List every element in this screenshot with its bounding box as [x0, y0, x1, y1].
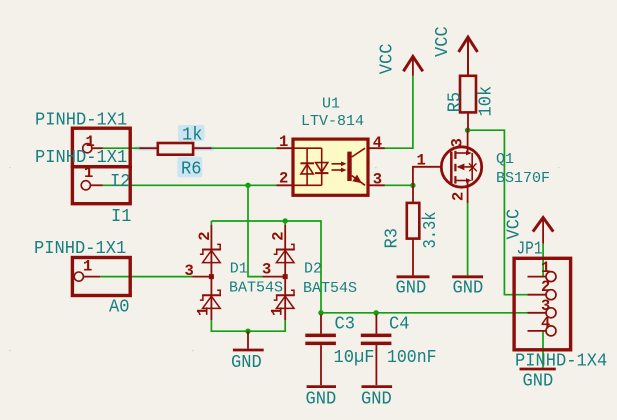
ground GND below JP1 [520, 368, 556, 371]
Q1 source tap [455, 180, 466, 182]
D1 junction square [209, 274, 214, 279]
svg-text:3: 3 [185, 262, 194, 280]
node D2 top junction [283, 218, 288, 223]
resistor R6 body [158, 143, 193, 155]
svg-text:1: 1 [195, 307, 213, 316]
svg-text:Q1: Q1 [496, 151, 514, 168]
svg-text:2: 2 [541, 278, 550, 296]
ground GND below Q1 source [452, 275, 483, 278]
pin 1 circle of middle connector [81, 181, 90, 190]
node R5/Q1 drain junction [465, 128, 470, 133]
svg-text:BAT54S: BAT54S [303, 280, 357, 297]
label highlight R6 [177, 157, 202, 178]
D2 junction square [283, 274, 288, 279]
wire D2 top stub [284, 221, 286, 225]
svg-text:2: 2 [450, 192, 468, 201]
svg-text:2: 2 [279, 169, 288, 187]
Q1 body arrow [457, 164, 465, 171]
D2 bottom schottky diode [276, 294, 295, 296]
ground GND below R3 [397, 275, 430, 278]
svg-text:1k: 1k [182, 125, 203, 146]
svg-text:R6: R6 [181, 159, 202, 180]
svg-text:A0: A0 [109, 297, 130, 318]
resistor R6 leads [139, 147, 158, 149]
svg-text:1: 1 [417, 151, 426, 169]
svg-text:4: 4 [373, 134, 382, 152]
pin 1 stub of middle connector [90, 184, 102, 186]
svg-text:3: 3 [541, 297, 550, 315]
R3 leads [412, 185, 414, 203]
svg-text:3: 3 [373, 171, 382, 189]
power VCC arrow above U1 [403, 57, 422, 72]
svg-text:3: 3 [262, 261, 271, 279]
svg-text:10µF: 10µF [334, 347, 375, 368]
svg-text:2: 2 [196, 231, 214, 240]
U1 LED diode right (down) [315, 172, 328, 174]
resistor R5 body [460, 76, 476, 113]
svg-text:LTV-814: LTV-814 [301, 113, 364, 130]
svg-text:JP1: JP1 [517, 239, 543, 260]
JP1 pin 2 [528, 294, 547, 296]
wire A0 to D1 pin3 [100, 276, 192, 278]
svg-text:GND: GND [231, 352, 262, 373]
svg-text:PINHD-1X4: PINHD-1X4 [515, 351, 607, 372]
svg-text:VCC: VCC [377, 43, 398, 74]
svg-text:I1: I1 [111, 206, 132, 227]
JP1 pin 4 [528, 330, 547, 332]
C4 leads [375, 315, 377, 334]
wire U1 pin4 to VCC [385, 76, 413, 148]
svg-text:4: 4 [541, 314, 550, 332]
svg-text:1: 1 [84, 164, 93, 182]
svg-text:U1: U1 [322, 96, 340, 113]
pin 1 circle of A0 connector [74, 272, 83, 281]
connector box I1 (middle PINHD-1X1) [72, 167, 130, 204]
label highlight 1k [178, 125, 205, 141]
node R3/U1.3 junction [410, 183, 415, 188]
wire Q1 source to GND [467, 203, 469, 275]
node C4 junction [373, 310, 378, 315]
svg-text:R5: R5 [444, 92, 465, 113]
ground GND below D bridge [247, 331, 249, 348]
svg-text:3.3k: 3.3k [420, 212, 441, 249]
U1 LED diode left (up) [300, 162, 314, 164]
svg-text:GND: GND [306, 389, 337, 410]
net highlight band on R6 net [135, 146, 215, 151]
C3 leads [320, 315, 322, 334]
svg-text:VCC: VCC [432, 26, 453, 57]
connector box I2 (top PINHD-1X1) [72, 128, 130, 167]
D1 pin3 stub [193, 276, 212, 278]
svg-text:GND: GND [523, 370, 554, 391]
node C3 junction [318, 310, 323, 315]
JP1 pin 1 [528, 276, 547, 278]
svg-text:1: 1 [86, 133, 95, 151]
wire U1 pin3 to R3 node [385, 184, 413, 186]
power VCC arrow above JP1 [533, 218, 553, 232]
Q1 source pin [467, 180, 469, 203]
svg-text:PINHD-1X1: PINHD-1X1 [35, 147, 127, 168]
svg-text:GND: GND [396, 278, 427, 299]
svg-text:BS170F: BS170F [496, 170, 550, 187]
U1 phototransistor [347, 152, 351, 181]
capacitor C4 plates [361, 334, 392, 338]
Q1 body diode mark [469, 163, 476, 171]
svg-text:C3: C3 [335, 314, 356, 335]
transistor Q1 circle [441, 147, 481, 187]
connector box A0 (bottom PINHD-1X1) [72, 258, 130, 296]
wire R6 to U1 pin1 [212, 147, 277, 149]
Q1 gate wire (red) [413, 167, 442, 186]
svg-text:BAT54S: BAT54S [229, 279, 283, 296]
wire node I2 down to D2 pin3 [248, 185, 263, 276]
svg-text:100nF: 100nF [387, 347, 437, 368]
svg-text:D2: D2 [304, 260, 322, 277]
U1 emission arrows [332, 163, 343, 165]
D1 top schottky diode [202, 249, 221, 251]
svg-text:D1: D1 [230, 261, 248, 278]
svg-text:1: 1 [279, 133, 288, 151]
resistor R3 body [407, 203, 420, 239]
Q1 drain pin [467, 130, 469, 153]
D2 top schottky diode [276, 249, 295, 251]
Q1 channel dashes [454, 151, 456, 159]
wire JP1 pin4 to GND [542, 331, 544, 368]
connector box JP1 (PINHD-1X4) [514, 258, 571, 350]
wire D1 top stub [210, 221, 212, 225]
wire I1 pin to R6 [103, 147, 139, 149]
svg-text:GND: GND [453, 278, 484, 299]
R5 leads [467, 40, 469, 76]
JP1 pin 3 [528, 312, 547, 314]
capacitor C3 plates [305, 334, 336, 338]
diode D1 vertical line [210, 225, 212, 320]
wire rail C3 C4 to JP1 pin3 [321, 312, 528, 314]
svg-text:I2: I2 [110, 171, 131, 192]
D2 pin3 stub [263, 276, 286, 278]
svg-text:VCC: VCC [504, 209, 525, 240]
power VCC arrow above R5 [459, 37, 478, 52]
svg-text:10k: 10k [475, 86, 496, 117]
svg-text:GND: GND [361, 389, 392, 410]
svg-text:1: 1 [268, 307, 286, 316]
svg-text:2: 2 [270, 231, 288, 240]
diode D2 vertical line [284, 225, 286, 320]
U1 LED bracket [293, 147, 322, 149]
ground GND below C4 [362, 385, 393, 388]
D1 bottom schottky diode [202, 294, 221, 296]
svg-text:C4: C4 [389, 314, 410, 335]
optocoupler U1 body [293, 139, 368, 195]
pin 1 stub of top connector [92, 147, 103, 149]
pin 1 circle of top connector [83, 144, 92, 153]
svg-text:R3: R3 [381, 228, 402, 249]
svg-text:1: 1 [541, 259, 550, 277]
svg-text:1: 1 [83, 258, 92, 276]
ground GND below C3 [307, 385, 336, 388]
Q1 drain tap [455, 152, 466, 154]
Q1 gate bar [450, 152, 453, 184]
wire drain node to JP1 pin2 [468, 130, 528, 295]
node D bottom GND junction [245, 329, 250, 334]
Q1 internal rail [471, 153, 473, 181]
node I2/U1.2/D2.3 junction [245, 183, 250, 188]
wire I2 pin to U1 pin2 [103, 184, 277, 186]
pin 1 stub of A0 connector [83, 276, 100, 278]
wire VCC to JP1 pin1 [542, 244, 544, 277]
wire D1 top to D2 top to corner [211, 221, 321, 313]
wire D bottom bus [211, 320, 285, 331]
svg-text:3: 3 [449, 138, 467, 147]
svg-text:PINHD-1X1: PINHD-1X1 [35, 110, 127, 131]
U1 pin stubs [276, 147, 293, 149]
svg-text:PINHD-1X1: PINHD-1X1 [34, 238, 126, 259]
